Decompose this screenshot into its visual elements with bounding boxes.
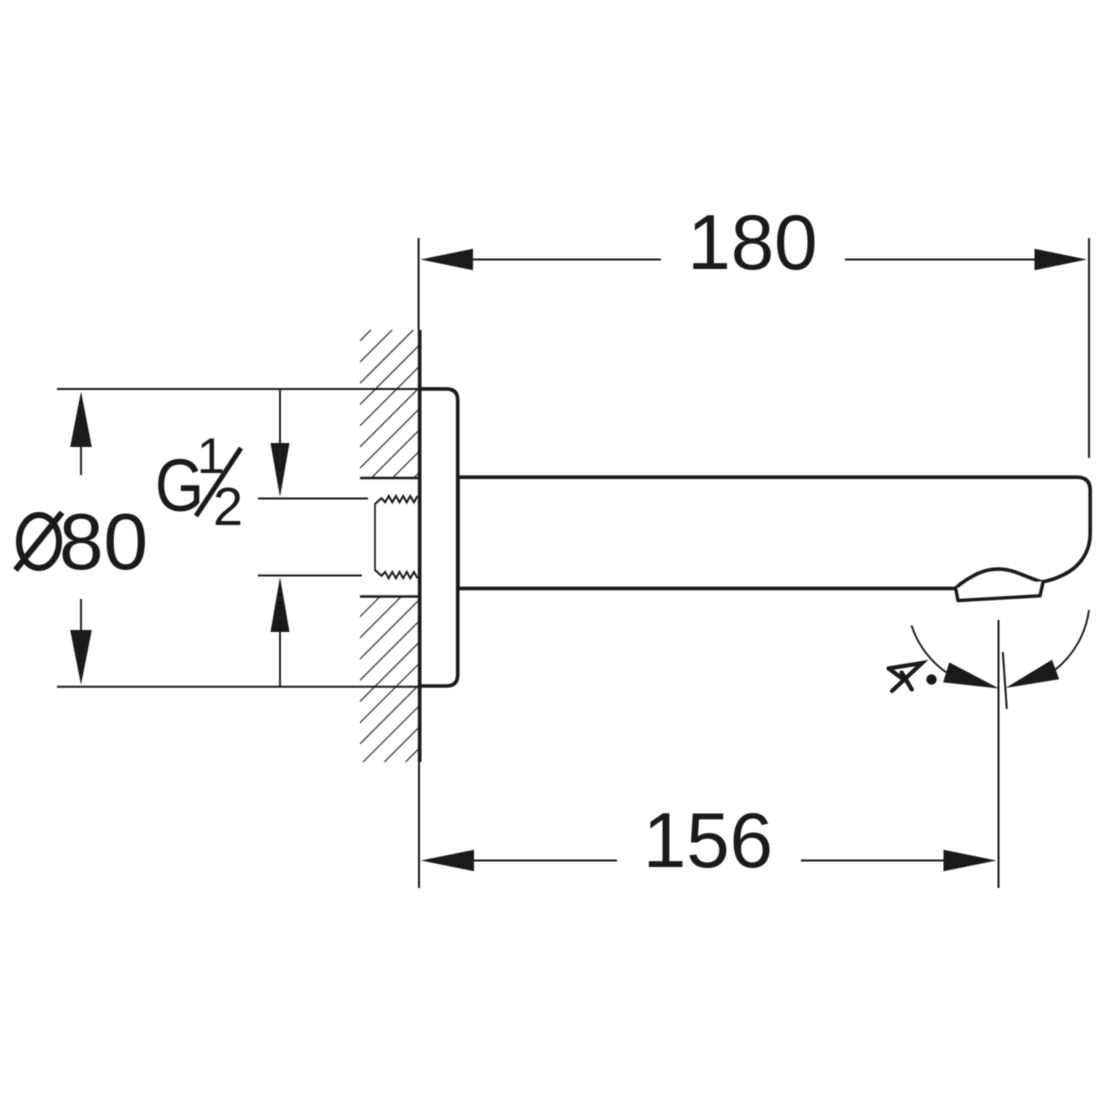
spout body [458, 477, 1090, 588]
wall hatch upper block [360, 330, 419, 478]
dim 80 down arrow [70, 630, 92, 685]
dim 156 right arrow [944, 850, 997, 872]
outlet centerline [998, 620, 1000, 888]
dim 80 bottom extension line [57, 686, 418, 688]
svg-text:156: 156 [643, 796, 773, 884]
dim 180 line left segment [471, 259, 661, 261]
dim 156 left extension line [418, 762, 420, 888]
svg-text:180: 180 [687, 198, 817, 286]
dim 156 line left segment [472, 860, 617, 862]
flange [420, 389, 458, 686]
dim 80 diameter symbol [19, 515, 59, 568]
wall hole bottom edge [360, 595, 420, 597]
label degree dot [926, 674, 936, 684]
dim G12 up arrow [271, 577, 290, 632]
dim G12 bottom extension line [258, 575, 362, 577]
dim G12 top extension line [258, 498, 368, 500]
angle arc left [912, 625, 947, 672]
dim 180 right arrow [1035, 249, 1088, 271]
wall hole top edge [360, 477, 420, 479]
label 4 [889, 663, 922, 691]
dim 80 top extension line [57, 388, 418, 390]
wall hatch lower block [360, 597, 419, 762]
svg-text:80: 80 [59, 497, 148, 586]
outlet 4deg tilted line [1003, 652, 1007, 709]
aerator outlet [956, 581, 1044, 600]
dim 180 right extension line [1088, 238, 1090, 458]
label fraction slash [196, 448, 241, 516]
thread nipple G1/2 [375, 496, 418, 504]
wall surface line [418, 330, 422, 762]
dim G12 lower line [279, 632, 281, 687]
dim G12 down arrow [271, 443, 290, 497]
angle right arrowhead [1006, 660, 1060, 688]
dim 156 line right segment [801, 860, 944, 862]
angle left arrowhead [943, 662, 999, 688]
dim 180 left extension line [418, 238, 420, 330]
dim 80 line lower segment [80, 599, 82, 631]
dim 156 left arrow [421, 850, 474, 872]
thread left edge [374, 504, 376, 571]
wall line over flange [418, 330, 422, 762]
dim G12 upper line [279, 390, 281, 444]
dim 180 line right segment [845, 259, 1036, 261]
dim 80 up arrow [70, 392, 92, 448]
svg-text:2: 2 [213, 477, 243, 537]
dim 180 left arrow [421, 249, 474, 271]
angle arc right [1056, 610, 1089, 670]
dim 80 line upper segment [80, 446, 82, 475]
